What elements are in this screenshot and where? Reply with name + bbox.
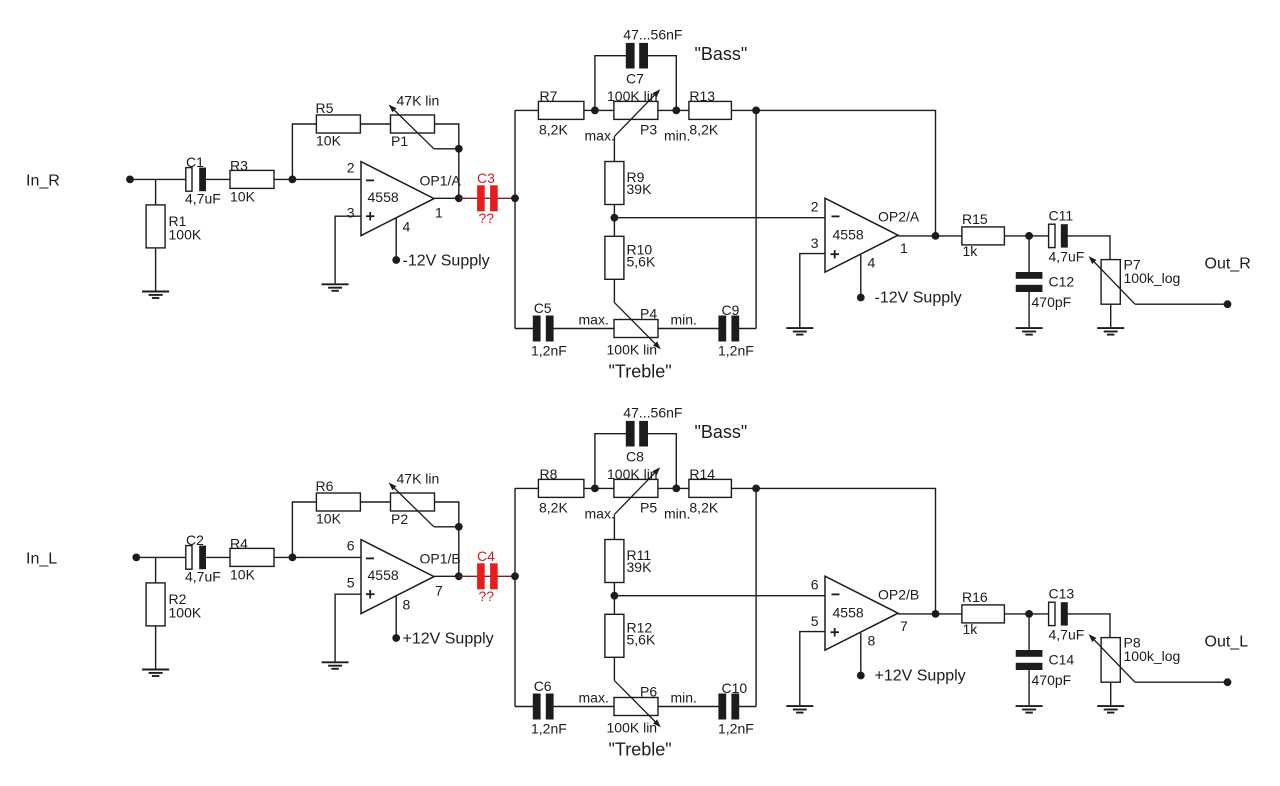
wire R3 to op-amp inverting input [274, 178, 361, 180]
svg-text:C4: C4 [477, 548, 495, 564]
plus sign [366, 590, 375, 599]
wire R4 to op-amp inverting input [274, 556, 361, 558]
capacitor C11 4,7uF output [1049, 224, 1068, 247]
svg-text:C1: C1 [186, 154, 204, 170]
node supply terminal [392, 634, 400, 642]
svg-text:min.: min. [671, 312, 697, 328]
svg-text:5,6K: 5,6K [627, 254, 656, 270]
svg-text:min.: min. [664, 506, 690, 522]
minus sign [832, 593, 840, 595]
svg-text:C13: C13 [1049, 586, 1075, 602]
potentiometer P8 100k_log volume [1101, 638, 1120, 683]
svg-text:min.: min. [664, 128, 690, 144]
capacitor C10 1,2nF treble right [718, 694, 739, 720]
svg-text:4,7uF: 4,7uF [185, 569, 221, 585]
svg-text:1k: 1k [963, 243, 979, 259]
wire R15 to C11 [1004, 613, 1048, 615]
svg-text:10K: 10K [230, 567, 256, 583]
wire op-amp output [434, 575, 459, 577]
node junction at inverting input [289, 176, 297, 184]
svg-text:min.: min. [671, 690, 697, 706]
node Out_L output terminal [1224, 678, 1232, 686]
wire right rail of tone stack [755, 488, 757, 706]
svg-text:2: 2 [347, 160, 355, 176]
svg-text:8,2K: 8,2K [539, 122, 568, 138]
resistor R15 1k [962, 227, 1005, 245]
wire C2 to R4 [206, 556, 230, 558]
wire R10 to P4 wiper [613, 657, 615, 680]
wire supply pin [395, 596, 397, 638]
ground [322, 284, 349, 291]
svg-text:4,7uF: 4,7uF [1049, 249, 1085, 265]
wire C9 to right rail [739, 328, 756, 330]
wire op-amp 2 output to R15 [898, 235, 962, 237]
svg-text:10K: 10K [316, 133, 342, 149]
wire P4 to C9 [658, 706, 719, 708]
resistor R8 8,2K [538, 479, 584, 497]
svg-text:C12: C12 [1049, 274, 1075, 290]
wire op-amp output [434, 197, 459, 199]
svg-text:-12V Supply: -12V Supply [403, 253, 490, 270]
plus sign [366, 212, 375, 221]
node bass cap right junction [672, 485, 680, 493]
svg-text:3: 3 [347, 205, 355, 221]
svg-text:C8: C8 [626, 449, 644, 465]
ground [786, 706, 813, 713]
node tone stack output junction [752, 107, 760, 115]
svg-text:C10: C10 [722, 680, 748, 696]
wire P2 wiper [434, 526, 459, 528]
node mid divider junction [611, 592, 619, 600]
svg-text:1,2nF: 1,2nF [718, 343, 754, 359]
node supply terminal [857, 672, 865, 680]
potentiometer P2 47K lin [391, 493, 435, 511]
svg-text:P2: P2 [391, 511, 408, 527]
node wiper junction [455, 523, 463, 531]
wire feedback up [292, 124, 316, 179]
svg-text:39K: 39K [627, 181, 653, 197]
svg-text:2: 2 [811, 199, 819, 215]
wire input to C cap [136, 556, 186, 558]
wire P3 to R13 [658, 109, 689, 111]
plus sign [831, 250, 840, 259]
svg-text:OP2/A: OP2/A [878, 209, 920, 225]
wire non-inverting input to ground [800, 632, 825, 706]
capacitor C9 1,2nF treble right [718, 316, 739, 342]
svg-text:5,6K: 5,6K [627, 632, 656, 648]
svg-text:R6: R6 [316, 478, 334, 494]
svg-text:C6: C6 [534, 678, 552, 694]
ground [142, 670, 169, 677]
node op-amp 2 output [932, 232, 940, 240]
wire supply pin [860, 633, 862, 676]
svg-text:4: 4 [403, 219, 411, 235]
svg-text:R13: R13 [689, 88, 715, 104]
wire feedback top to op-amp 2 output [756, 488, 935, 614]
svg-text:1: 1 [900, 240, 908, 256]
svg-text:+12V Supply: +12V Supply [403, 631, 494, 648]
svg-text:8: 8 [403, 597, 411, 613]
svg-text:C11: C11 [1049, 208, 1074, 224]
wire rail to R7 [515, 487, 538, 489]
minus sign [366, 557, 374, 559]
capacitor C7 47...56nF bass [626, 43, 648, 69]
svg-text:100K lin: 100K lin [607, 720, 658, 736]
svg-text:100K lin: 100K lin [607, 466, 658, 482]
svg-text:P5: P5 [640, 500, 657, 516]
svg-text:6: 6 [811, 577, 819, 593]
svg-text:+12V Supply: +12V Supply [875, 668, 966, 685]
wire red through C4 [459, 575, 515, 577]
wire C12 to ground [1028, 292, 1030, 327]
svg-text:1,2nF: 1,2nF [531, 721, 567, 737]
wire to op-amp 2 inverting input [614, 595, 825, 597]
wire P3 to R13 [658, 487, 689, 489]
wire P3 wiper stub [613, 136, 615, 161]
resistor R11 39K [605, 540, 624, 583]
capacitor C3 unknown value (red) [477, 185, 498, 211]
node In_R input terminal [126, 176, 134, 184]
svg-text:"Bass": "Bass" [695, 422, 748, 442]
wire branch down to shunt resistor [155, 557, 157, 583]
svg-text:P4: P4 [640, 306, 657, 322]
svg-text:100K: 100K [169, 227, 202, 243]
resistor R2 100K [146, 583, 165, 626]
svg-text:470pF: 470pF [1032, 294, 1072, 310]
svg-text:C14: C14 [1049, 652, 1075, 668]
svg-text:4558: 4558 [833, 605, 864, 621]
wire up to bass cap [595, 56, 626, 111]
wire C5 to P4 [553, 328, 614, 330]
wire non-inverting input to ground [335, 216, 361, 283]
svg-text:7: 7 [900, 618, 908, 634]
wire red through C3 [459, 197, 515, 199]
svg-text:R16: R16 [962, 589, 988, 605]
svg-text:100K: 100K [169, 605, 202, 621]
node supply terminal [857, 294, 865, 302]
svg-text:"Treble": "Treble" [609, 362, 672, 382]
svg-text:R15: R15 [962, 211, 988, 227]
wire rail to C5 [515, 706, 533, 708]
wire rail to R7 [515, 109, 538, 111]
minus sign [832, 215, 840, 217]
svg-text:C3: C3 [477, 170, 495, 186]
resistor R13 8,2K [689, 101, 732, 119]
svg-text:OP1/B: OP1/B [420, 551, 461, 567]
svg-text:Out_L: Out_L [1205, 634, 1249, 651]
svg-text:5: 5 [347, 575, 355, 591]
capacitor C14 470pF shunt [1028, 614, 1030, 650]
ground [322, 662, 349, 669]
potentiometer P7 100k_log volume [1101, 260, 1120, 305]
ground [1097, 328, 1124, 335]
svg-text:R14: R14 [689, 466, 715, 482]
resistor R16 1k [962, 605, 1005, 623]
wire feedback up [292, 502, 316, 557]
svg-text:P1: P1 [391, 133, 408, 149]
capacitor C12 470pF shunt [1028, 236, 1030, 272]
node tone stack input [511, 194, 519, 202]
svg-text:R4: R4 [230, 536, 248, 552]
potentiometer P6 100K lin treble [614, 698, 658, 716]
ground [142, 292, 169, 299]
node junction at inverting input [289, 554, 297, 562]
node output filter junction [1025, 232, 1033, 240]
svg-text:1,2nF: 1,2nF [718, 721, 754, 737]
svg-text:4558: 4558 [833, 227, 864, 243]
ground [1097, 706, 1124, 713]
wire R13 to right junction [731, 487, 756, 489]
wire P3 wiper stub [613, 514, 615, 539]
wire C11 to P7 [1067, 236, 1110, 260]
svg-text:R3: R3 [230, 158, 248, 174]
svg-text:"Bass": "Bass" [695, 44, 748, 64]
svg-text:100K lin: 100K lin [607, 342, 658, 358]
wire C1 to R3 [206, 178, 230, 180]
svg-text:C9: C9 [722, 302, 740, 318]
op-amp OP2/B 4558 [825, 576, 898, 650]
svg-text:??: ?? [479, 210, 495, 226]
svg-text:8,2K: 8,2K [539, 500, 568, 516]
wire P7 to ground [1110, 682, 1112, 705]
ground [1016, 706, 1043, 713]
svg-text:8,2K: 8,2K [689, 500, 718, 516]
capacitor C1 4,7uF [186, 168, 206, 192]
svg-text:1,2nF: 1,2nF [531, 343, 567, 359]
svg-text:4,7uF: 4,7uF [185, 191, 221, 207]
svg-text:39K: 39K [627, 559, 653, 575]
capacitor C4 unknown value (red) [477, 563, 498, 589]
svg-text:47K lin: 47K lin [397, 93, 440, 109]
wire feedback top to op-amp 2 output [756, 110, 935, 235]
svg-text:-12V Supply: -12V Supply [875, 290, 962, 307]
wire R2 to ground [155, 626, 157, 669]
svg-text:??: ?? [479, 588, 495, 604]
svg-text:4,7uF: 4,7uF [1049, 627, 1085, 643]
svg-text:Out_R: Out_R [1205, 256, 1251, 273]
svg-text:7: 7 [435, 583, 443, 599]
svg-text:OP1/A: OP1/A [420, 173, 462, 189]
wire non-inverting input to ground [335, 594, 361, 661]
wire input to C cap [130, 178, 186, 180]
potentiometer P4 100K lin treble [614, 320, 658, 338]
wire P7 to ground [1110, 304, 1112, 327]
ground [786, 328, 813, 335]
svg-text:max.: max. [585, 506, 615, 522]
resistor R6 10K feedback [316, 493, 360, 511]
node op-amp 2 output [932, 610, 940, 618]
svg-text:R7: R7 [540, 88, 558, 104]
wire to op-amp 2 inverting input [614, 217, 825, 219]
svg-text:5: 5 [811, 613, 819, 629]
svg-text:P3: P3 [640, 122, 657, 138]
wire R15 to C11 [1004, 235, 1048, 237]
capacitor C13 4,7uF output [1049, 602, 1068, 625]
svg-text:4558: 4558 [368, 189, 399, 205]
node mid divider junction [611, 214, 619, 222]
wire up to bass cap [595, 434, 626, 489]
minus sign [366, 179, 374, 181]
svg-text:47K lin: 47K lin [397, 471, 440, 487]
wire R10 to P4 wiper [613, 279, 615, 302]
wire C9 to right rail [739, 706, 756, 708]
resistor R7 8,2K [538, 101, 584, 119]
svg-text:In_R: In_R [26, 173, 60, 190]
wire non-inverting input to ground [800, 254, 825, 328]
node supply terminal [392, 256, 400, 264]
svg-text:max.: max. [579, 312, 609, 328]
resistor R9 39K [605, 162, 624, 205]
wire R9 to R10 [613, 583, 615, 615]
wire rail to C5 [515, 328, 533, 330]
resistor R12 5,6K [605, 614, 624, 657]
svg-text:4: 4 [868, 255, 876, 271]
node op-amp output [455, 194, 463, 202]
svg-text:1: 1 [435, 205, 443, 221]
capacitor C5 1,2nF treble left [533, 316, 554, 342]
svg-text:470pF: 470pF [1032, 672, 1072, 688]
potentiometer P5 100K lin bass [614, 479, 658, 497]
node bass cap left junction [591, 485, 599, 493]
wire R9 to R10 [613, 205, 615, 237]
svg-text:8: 8 [868, 633, 876, 649]
capacitor C8 47...56nF bass [626, 421, 648, 447]
svg-text:6: 6 [347, 538, 355, 554]
svg-text:C5: C5 [534, 300, 552, 316]
wire op-amp 2 output to R15 [898, 613, 962, 615]
capacitor C2 4,7uF [186, 546, 206, 570]
wire R13 to right junction [731, 109, 756, 111]
wire supply pin [395, 218, 397, 260]
wire left rail of tone stack [514, 488, 516, 706]
svg-text:In_L: In_L [26, 551, 57, 568]
op-amp OP1/B 4558 [361, 540, 434, 614]
wire wiper to output terminal [1135, 681, 1228, 683]
svg-text:"Treble": "Treble" [609, 740, 672, 760]
svg-text:C2: C2 [186, 532, 204, 548]
wire wiper to output terminal [1135, 303, 1228, 305]
svg-text:max.: max. [579, 690, 609, 706]
svg-text:8,2K: 8,2K [689, 122, 718, 138]
svg-text:47...56nF: 47...56nF [623, 27, 682, 43]
svg-text:100k_log: 100k_log [1124, 270, 1181, 286]
capacitor C6 1,2nF treble left [533, 694, 554, 720]
ground [1016, 328, 1043, 335]
node In_L input terminal [132, 554, 140, 562]
svg-text:3: 3 [811, 235, 819, 251]
svg-text:10K: 10K [230, 189, 256, 205]
wire P1 right to output node [435, 124, 459, 198]
node tone stack input [511, 572, 519, 580]
resistor R10 5,6K [605, 236, 624, 279]
wire C11 to P7 [1067, 614, 1110, 638]
node bass cap left junction [591, 107, 599, 115]
op-amp OP2/A 4558 [825, 198, 898, 272]
svg-text:1k: 1k [963, 621, 979, 637]
resistor R14 8,2K [689, 479, 732, 497]
node Out_R output terminal [1224, 300, 1232, 308]
resistor R5 10K feedback [316, 115, 360, 133]
svg-text:C7: C7 [626, 71, 644, 87]
op-amp OP1/A 4558 [361, 162, 434, 236]
resistor R3 10K [230, 170, 274, 188]
svg-text:R5: R5 [316, 100, 334, 116]
wire R5 to P1 [360, 123, 390, 125]
svg-text:P6: P6 [640, 684, 657, 700]
svg-text:OP2/B: OP2/B [878, 587, 919, 603]
wire supply pin [860, 255, 862, 298]
wire left rail of tone stack [514, 110, 516, 328]
wire bass cap down [648, 56, 677, 111]
svg-text:10K: 10K [316, 511, 342, 527]
wire P1 wiper [434, 148, 459, 150]
node wiper junction [455, 145, 463, 153]
node op-amp output [455, 572, 463, 580]
resistor R4 10K [230, 548, 274, 566]
wire P2 right to output node [435, 502, 459, 576]
svg-text:100k_log: 100k_log [1124, 648, 1181, 664]
svg-text:47...56nF: 47...56nF [623, 405, 682, 421]
potentiometer P3 100K lin bass [614, 101, 658, 119]
wire R6 to P2 [360, 501, 390, 503]
wire P4 to C9 [658, 328, 719, 330]
wire branch down to shunt resistor [155, 179, 157, 205]
svg-text:100K lin: 100K lin [607, 88, 658, 104]
node tone stack output junction [752, 485, 760, 493]
svg-text:R8: R8 [540, 466, 558, 482]
node output filter junction [1025, 610, 1033, 618]
plus sign [831, 628, 840, 637]
wire R7 to P3 [584, 109, 614, 111]
wire R7 to P3 [584, 487, 614, 489]
node bass cap right junction [672, 107, 680, 115]
svg-text:max.: max. [585, 128, 615, 144]
wire bass cap down [648, 434, 677, 489]
wire C5 to P4 [553, 706, 614, 708]
wire C12 to ground [1028, 670, 1030, 705]
wire right rail of tone stack [755, 110, 757, 328]
resistor R1 100K [146, 205, 165, 248]
potentiometer P1 47K lin [391, 115, 435, 133]
wire R1 to ground [155, 248, 157, 291]
svg-text:4558: 4558 [368, 567, 399, 583]
